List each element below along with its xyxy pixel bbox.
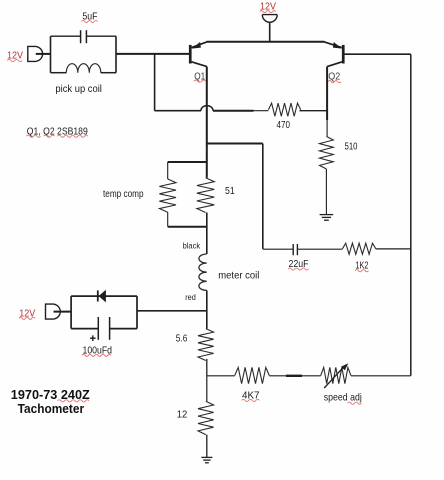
wire 22uF to 1K2 [297,248,342,250]
transistor Q1 emitter [192,42,207,49]
label 22uF [288,258,309,270]
diode D1 [98,290,106,303]
label Q2 [328,71,341,83]
label + polarity [90,335,96,341]
wire lower connector to box [54,311,72,313]
resistor 510 [320,136,334,169]
wire temp comp top lead [167,162,169,179]
svg-text:red: red [185,292,196,302]
label 510 [345,141,358,153]
svg-text:22uF: 22uF [289,258,309,270]
inductor meter coil [199,254,207,290]
label 1K2 [355,260,369,272]
wire 5.6 to junction [206,359,208,376]
wire Q1 collector down [206,67,208,178]
diode box bottom edge [71,328,137,330]
title line 2 [18,401,85,416]
resistor 470 [268,103,300,116]
diode box left edge [70,296,72,329]
wire 1K2 to right rail [376,248,411,250]
diode box top edge [71,295,137,297]
ground (510) [320,215,334,221]
resistor 12 [198,401,214,434]
label 51 [225,185,235,197]
svg-text:pick up coil: pick up coil [55,83,102,95]
label 100uFd [82,344,112,356]
inductor pick up coil [51,64,117,73]
transistor Q2 collector [327,62,342,67]
wire emitter rail [207,41,325,43]
svg-text:470: 470 [277,119,291,131]
wire 51 to meter coil [206,213,208,255]
label 5.6 [176,333,188,345]
label black [183,241,201,251]
wire speed adj to right rail [351,375,411,377]
transistor Q2 base bar [342,45,345,64]
label 12V (lower) [19,308,36,319]
wire Q2 base to right rail [344,53,410,55]
wire hop over collector line [201,106,213,111]
svg-text:5.6: 5.6 [176,333,188,345]
potentiometer speed adj [321,363,351,388]
wire temp comp bottom lead [167,212,169,226]
label 12V (input) [7,51,23,62]
pick up coil box right edge [115,36,117,72]
svg-text:meter coil: meter coil [218,270,259,282]
wire to crossover [155,110,201,112]
transistor Q1 collector [192,62,207,67]
label 4K7 [242,389,260,401]
wire 12 to ground [206,435,208,458]
svg-text:temp comp: temp comp [103,188,144,200]
label Q1 [194,70,206,82]
wire Q2 collector down [326,67,328,137]
svg-text:510: 510 [345,141,358,153]
label red [185,292,196,302]
label meter coil [218,270,259,282]
label pick up coil [55,83,102,95]
wire hop to 470 [213,110,268,112]
pick up coil box top edge [51,35,117,37]
capacitor 22uF [293,244,297,255]
wire 510 to ground [325,169,327,214]
label 5uF [82,11,98,23]
wire 4K7 to speed adj [269,375,320,377]
connector 12V pickup input [28,46,43,61]
diode box right edge [136,296,138,329]
title line 1 [11,387,90,402]
wire 470 to Q2 collector [300,110,328,112]
wire 22uF branch [263,248,293,250]
transistor Q2 emitter [324,42,342,49]
resistor temp comp [159,179,176,212]
resistor 51 [197,178,214,213]
wire branch to 22uF line [207,144,263,249]
connector 12V supply [262,15,277,23]
wire box to main line [137,310,207,312]
svg-text:black: black [183,241,201,251]
label 12 [177,409,188,421]
label 470 [277,119,291,131]
wire temp comp tie [168,226,207,228]
svg-text:51: 51 [225,185,235,197]
label Q1, Q2 2SB189 [27,125,89,137]
svg-text:12: 12 [177,409,188,421]
resistor 5.6 [198,329,214,361]
resistor 4K7 [235,367,270,383]
wire right rail [410,54,412,376]
svg-text:Tachometer: Tachometer [18,401,85,416]
label 12V (supply) [260,2,276,13]
wire junction to 12 [206,376,208,402]
wire meter coil down [206,290,208,328]
wire junction to 4K7 [207,375,235,377]
label speed adj [324,392,362,405]
wire base node drop [154,54,156,111]
label temp comp [103,188,144,200]
transistor Q1 base bar [189,45,192,64]
resistor 1K2 [342,243,375,254]
ground (main) [201,457,212,462]
pick up coil box left edge [50,36,52,72]
wire input to pickup box [36,53,51,55]
capacitor 100uFd plates [98,317,109,340]
capacitor 5uF plates [81,30,87,43]
wire 12V stem [269,22,271,42]
connector 12V lower [46,304,61,319]
wire branch to temp comp [168,161,207,163]
wire pickup box to Q1 base [116,53,189,55]
